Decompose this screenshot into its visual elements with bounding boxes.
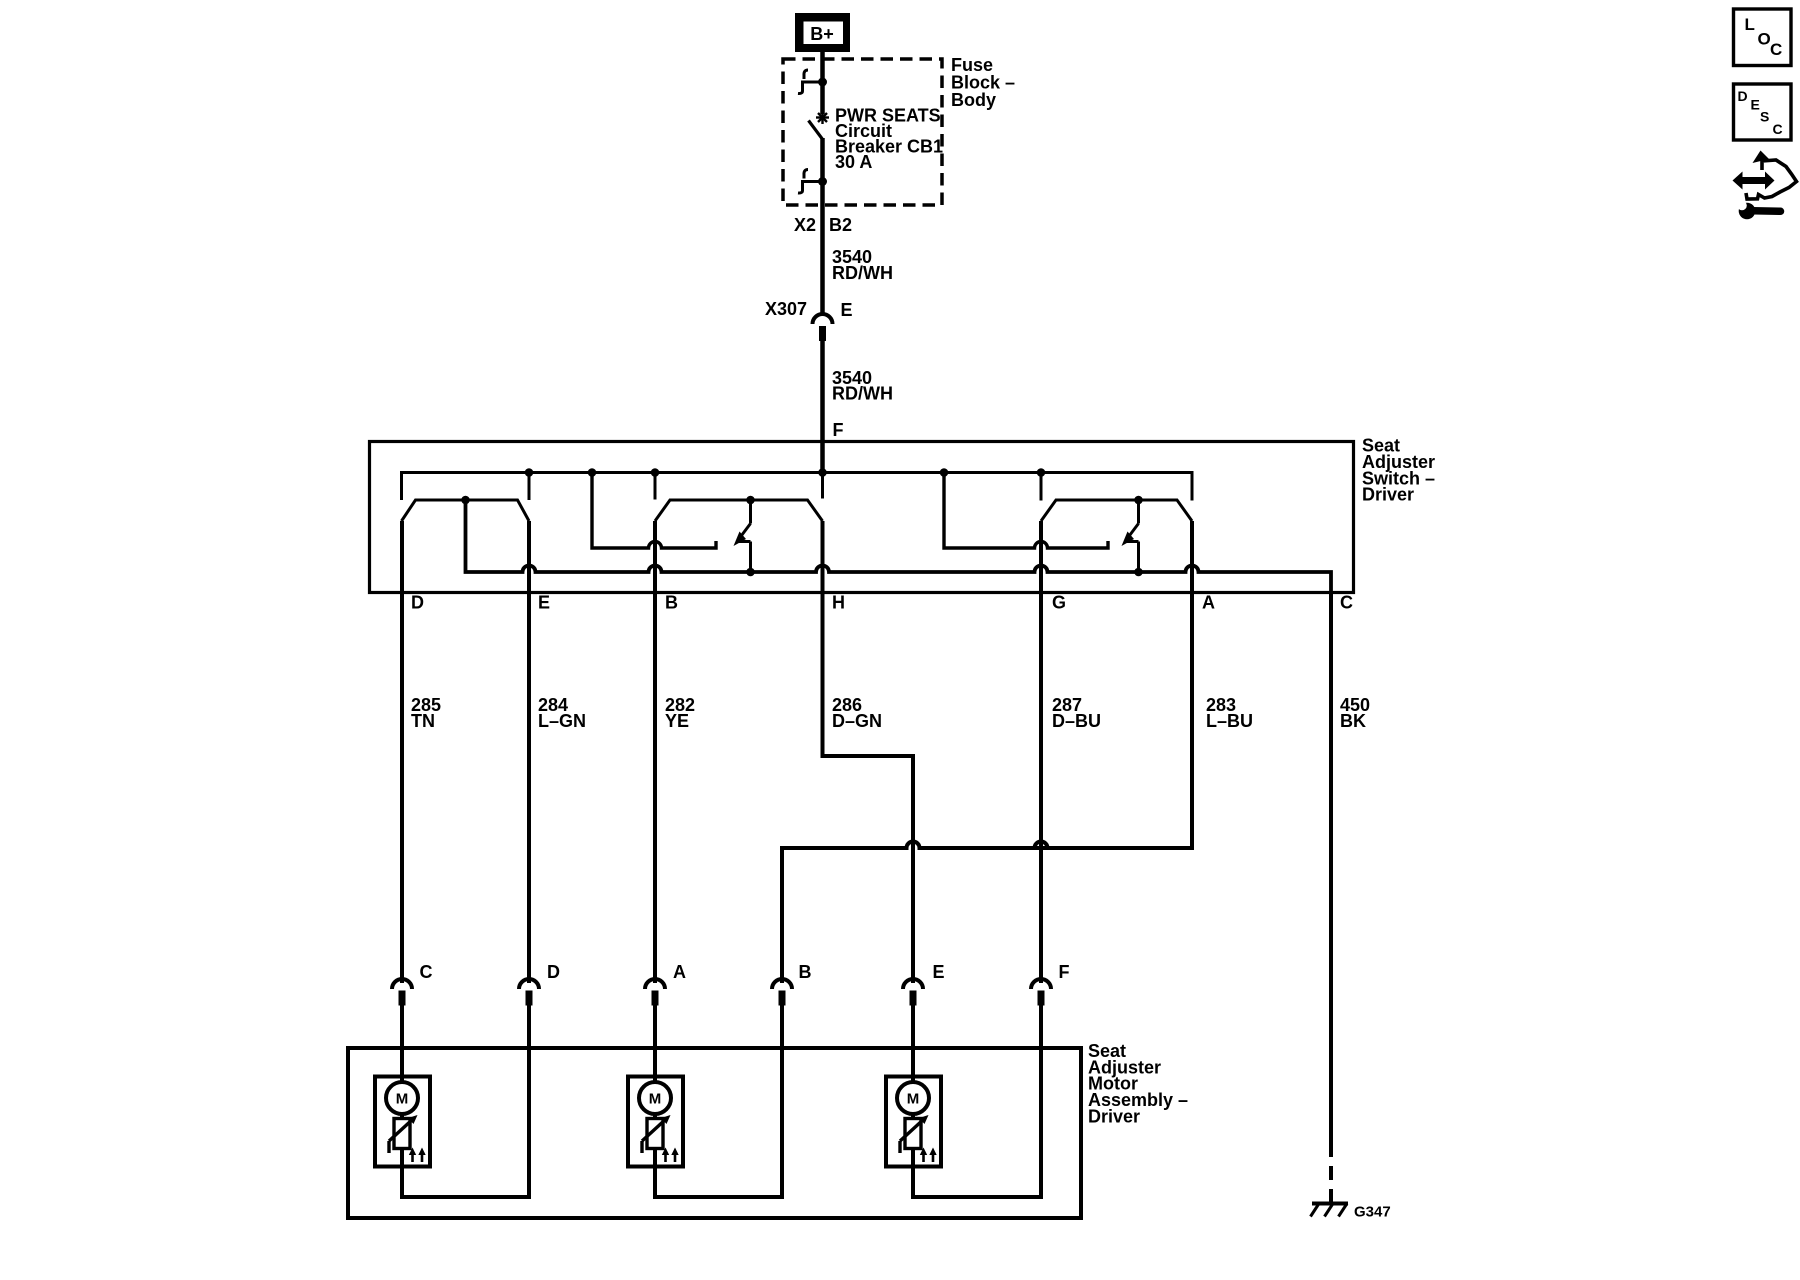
seat adjuster switch driver box bbox=[370, 442, 1354, 593]
wire A (283 L-BU) routed left (hops E-wire and G-wire) bbox=[782, 521, 1192, 983]
svg-text:E: E bbox=[933, 962, 945, 982]
svg-text:Driver: Driver bbox=[1088, 1106, 1140, 1126]
svg-text:B+: B+ bbox=[810, 24, 834, 44]
svg-text:F: F bbox=[833, 420, 844, 440]
svg-text:L–BU: L–BU bbox=[1206, 711, 1253, 731]
wire G (287 D-BU) bbox=[1039, 521, 1043, 983]
wire connector E to motor 3 bbox=[911, 1004, 915, 1083]
svg-text:L–GN: L–GN bbox=[538, 711, 586, 731]
inline connector D bbox=[519, 962, 560, 1006]
svg-text:C: C bbox=[1770, 40, 1782, 59]
switch blade 3 bbox=[1127, 500, 1139, 572]
bus stub contact above H bbox=[821, 473, 824, 499]
fixed contact line 1 (hops wire B) bbox=[592, 473, 716, 549]
motor M2 (recline) bbox=[628, 1077, 683, 1200]
wire E (284 L-GN) bbox=[527, 521, 531, 983]
svg-text:Driver: Driver bbox=[1362, 485, 1414, 505]
svg-text:30 A: 30 A bbox=[835, 152, 872, 172]
node on bus at contact 1 bbox=[588, 468, 597, 477]
svg-text:C: C bbox=[420, 962, 433, 982]
wire connector C to motor 1 bbox=[400, 1004, 404, 1083]
wire: fuse block to connector X307 bbox=[820, 182, 825, 317]
switch contact bar 3 (trapezoid G-A) bbox=[1041, 500, 1192, 521]
svg-text:H: H bbox=[832, 593, 845, 613]
switch common return line to pin C (hops E,B,H,G,A) bbox=[466, 500, 1332, 593]
DESC icon box bbox=[1734, 84, 1792, 140]
svg-text:D: D bbox=[411, 593, 424, 613]
wire connector B to motor 2 return bbox=[780, 1004, 784, 1199]
switch internal B+ bus bbox=[402, 473, 1193, 501]
inline connector B bbox=[772, 962, 812, 1006]
node on contact bar 3 bbox=[1134, 496, 1143, 505]
inline connector C bbox=[392, 962, 433, 1006]
svg-text:M: M bbox=[907, 1091, 920, 1108]
svg-text:B: B bbox=[799, 962, 812, 982]
fuse block body dashed box bbox=[783, 59, 942, 205]
wire connector F to motor 3 return bbox=[1039, 1004, 1043, 1199]
node on contact bar 2 bbox=[746, 496, 755, 505]
svg-text:YE: YE bbox=[665, 711, 689, 731]
svg-text:TN: TN bbox=[411, 711, 435, 731]
svg-text:Body: Body bbox=[951, 90, 996, 110]
seat adjuster motor assembly box bbox=[348, 1048, 1081, 1218]
wire: breaker blade to bottom contact bbox=[820, 138, 825, 182]
fixed contact line 2 (hops wire G) bbox=[944, 473, 1108, 549]
wire connector A to motor 2 bbox=[653, 1004, 657, 1083]
svg-text:D: D bbox=[547, 962, 560, 982]
wire: B+ to breaker contact bbox=[820, 52, 825, 114]
ground G347 bbox=[1311, 1204, 1391, 1221]
node blade 3 on common line bbox=[1134, 568, 1143, 577]
PWR SEATS breaker label bbox=[835, 106, 943, 173]
full-view navigation icon: outline arrow head bbox=[1753, 151, 1770, 164]
svg-text:E: E bbox=[841, 300, 853, 320]
svg-text:BK: BK bbox=[1340, 711, 1366, 731]
circuit breaker CB1 blade bbox=[809, 121, 823, 139]
svg-text:X307: X307 bbox=[765, 299, 807, 319]
svg-text:O: O bbox=[1758, 30, 1771, 49]
motor M3 (height) bbox=[886, 1077, 941, 1200]
svg-text:A: A bbox=[1202, 593, 1215, 613]
svg-text:D–BU: D–BU bbox=[1052, 711, 1101, 731]
node: breaker top junction bbox=[818, 78, 827, 87]
svg-text:RD/WH: RD/WH bbox=[832, 263, 893, 283]
svg-text:L: L bbox=[1745, 15, 1755, 34]
svg-text:A: A bbox=[673, 962, 686, 982]
bus stub contact above B bbox=[654, 473, 657, 500]
node: breaker bottom junction bbox=[818, 177, 827, 186]
circuit breaker CB1 star contact bbox=[816, 111, 829, 124]
terminal (bottom) in fuse block bbox=[798, 170, 823, 194]
wire C (450 BK) bbox=[1329, 593, 1333, 1144]
wire H (286 D-GN) routed right bbox=[823, 521, 914, 983]
arrowhead of blade 2 bbox=[734, 532, 747, 547]
inline connector A bbox=[645, 962, 686, 1006]
switch blade 2 bbox=[739, 500, 751, 572]
battery B+ symbol bbox=[795, 13, 850, 52]
svg-text:B: B bbox=[665, 593, 678, 613]
terminal (top) in fuse block bbox=[798, 70, 823, 94]
node on bus at contact 2 bbox=[940, 468, 949, 477]
bus stub contact above G bbox=[1040, 473, 1043, 501]
svg-text:G347: G347 bbox=[1354, 1204, 1391, 1221]
svg-text:C: C bbox=[1340, 593, 1353, 613]
node on bus at B bbox=[651, 468, 660, 477]
wire motor M3 return bbox=[911, 1195, 1043, 1199]
wire B (282 YE) bbox=[653, 521, 657, 983]
svg-text:B2: B2 bbox=[829, 215, 852, 235]
svg-text:S: S bbox=[1760, 109, 1769, 125]
node on bus at E bbox=[525, 468, 534, 477]
wire connector D to motor 1 return bbox=[527, 1004, 531, 1199]
wire: X307 to switch pin F bbox=[820, 341, 825, 473]
svg-text:G: G bbox=[1052, 593, 1066, 613]
wire motor M1 return bbox=[400, 1195, 531, 1199]
svg-text:F: F bbox=[1059, 962, 1070, 982]
switch contact bar 1 (trapezoid D-E) bbox=[402, 500, 530, 521]
node on bus at feed F bbox=[818, 468, 827, 477]
seat adjuster switch label bbox=[1362, 436, 1435, 505]
svg-text:E: E bbox=[1751, 97, 1760, 113]
full-view navigation icon: double arrow bbox=[1733, 172, 1775, 190]
bus stub contact above E bbox=[528, 473, 531, 501]
inline connector F bbox=[1031, 962, 1070, 1006]
inline connector X307 pin E bbox=[765, 299, 853, 341]
svg-text:E: E bbox=[538, 593, 550, 613]
svg-text:D–GN: D–GN bbox=[832, 711, 882, 731]
svg-text:D: D bbox=[1738, 88, 1748, 104]
fuse block label bbox=[951, 55, 1015, 110]
full-view navigation icon: wrench bbox=[1737, 201, 1780, 220]
LOC icon box bbox=[1734, 9, 1792, 66]
svg-text:RD/WH: RD/WH bbox=[832, 384, 893, 404]
wire D (285 TN) bbox=[400, 521, 404, 983]
node blade 2 on common line bbox=[746, 568, 755, 577]
full-view navigation icon: outline arrow bbox=[1746, 160, 1797, 199]
svg-text:X2: X2 bbox=[794, 215, 816, 235]
svg-text:M: M bbox=[396, 1091, 409, 1108]
switch contact bar 2 (trapezoid B-H) bbox=[655, 500, 823, 521]
seat adjuster motor assembly label bbox=[1088, 1041, 1188, 1126]
arrowhead of blade 3 bbox=[1122, 532, 1135, 547]
node on bus at G bbox=[1037, 468, 1046, 477]
svg-text:C: C bbox=[1773, 121, 1783, 137]
wire motor M2 return bbox=[653, 1195, 784, 1199]
node on contact bar 1 bbox=[461, 496, 470, 505]
ground wire dashed segment bbox=[1329, 1143, 1333, 1202]
svg-text:M: M bbox=[649, 1091, 662, 1108]
motor M1 (front/back) bbox=[375, 1077, 430, 1200]
inline connector E bbox=[903, 962, 945, 1006]
